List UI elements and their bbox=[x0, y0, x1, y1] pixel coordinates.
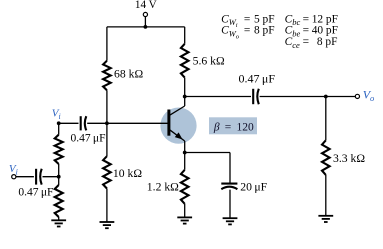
svg-text:12 pF: 12 pF bbox=[312, 13, 338, 25]
svg-text:=: = bbox=[244, 25, 250, 37]
svg-text:10 kΩ: 10 kΩ bbox=[113, 167, 142, 180]
svg-text:5 pF: 5 pF bbox=[254, 13, 275, 25]
svg-text:40 pF: 40 pF bbox=[312, 25, 338, 37]
svg-text:5.6 kΩ: 5.6 kΩ bbox=[193, 54, 225, 67]
svg-text:=: = bbox=[244, 13, 250, 25]
svg-text:0.47 μF: 0.47 μF bbox=[239, 71, 276, 85]
svg-text:14 V: 14 V bbox=[135, 0, 157, 11]
svg-text:3.3 kΩ: 3.3 kΩ bbox=[333, 152, 365, 165]
svg-text:1.2 kΩ: 1.2 kΩ bbox=[147, 180, 179, 193]
svg-text:=: = bbox=[303, 36, 309, 48]
svg-text:68 kΩ: 68 kΩ bbox=[114, 67, 143, 80]
svg-text:20 μF: 20 μF bbox=[240, 180, 267, 193]
svg-text:=: = bbox=[303, 13, 309, 25]
svg-text:0.47 μF: 0.47 μF bbox=[71, 133, 106, 145]
svg-text:β = 120: β = 120 bbox=[213, 121, 254, 133]
svg-text:=: = bbox=[303, 25, 309, 37]
svg-text:8 pF: 8 pF bbox=[254, 25, 275, 37]
svg-text:8 pF: 8 pF bbox=[317, 36, 338, 48]
svg-text:0.47 μF: 0.47 μF bbox=[18, 186, 53, 198]
